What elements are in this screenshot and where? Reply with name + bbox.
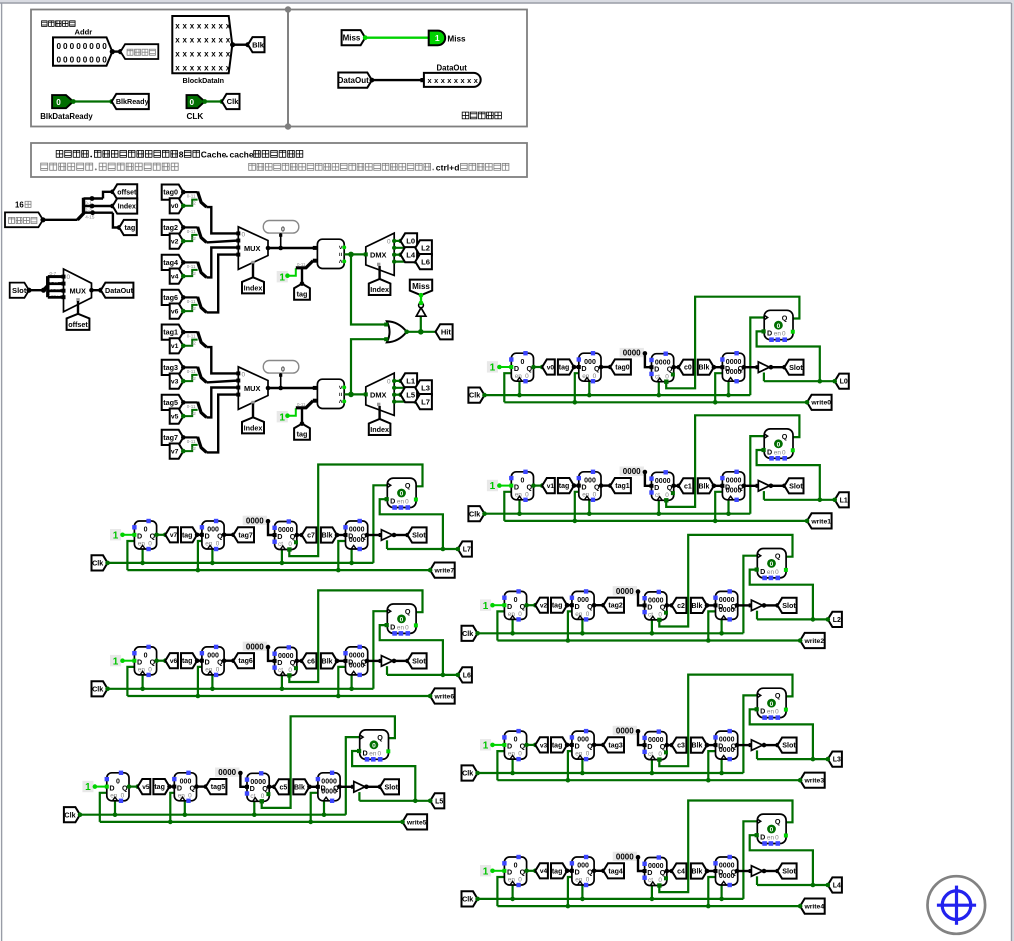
wire: buffer out to tunnel Slot (black bus) <box>762 603 780 608</box>
splitter: address 16-bit to offset/index/tag <box>78 189 122 230</box>
counter C5 (4-bit) <box>245 771 271 803</box>
svg-text:x: x <box>175 35 180 44</box>
demultiplexer DMX (line select) <box>364 373 394 415</box>
flip-flop W7 (written flag) <box>387 478 416 507</box>
tunnel tag (input, row 2) <box>551 598 574 613</box>
svg-text:0: 0 <box>775 835 779 842</box>
svg-text:0: 0 <box>665 492 669 499</box>
constant 0000 (counter preset, row 3) <box>613 726 645 745</box>
svg-text:tag4: tag4 <box>163 258 178 267</box>
wire: row3 write enable bus (dark green) <box>497 751 800 782</box>
label 输出引脚区 <box>462 112 469 119</box>
svg-text:0-11: 0-11 <box>187 194 196 199</box>
svg-text:Clk: Clk <box>64 810 75 819</box>
svg-text:0: 0 <box>658 612 662 619</box>
tunnel Slot (row 2) <box>778 598 797 613</box>
svg-text:tag4: tag4 <box>608 868 623 875</box>
svg-text:D: D <box>718 602 723 611</box>
tunnel Clk (row 2) <box>462 626 480 641</box>
register V7 (valid bit, 1-bit) <box>132 519 156 551</box>
tunnel Index (MUX select) <box>242 277 264 293</box>
svg-text:1: 1 <box>483 866 489 877</box>
svg-text:tag: tag <box>154 784 165 791</box>
input pin BlockDataIn (128-bit) <box>172 16 232 73</box>
svg-text:Slot: Slot <box>385 782 399 791</box>
svg-text:write0: write0 <box>810 400 831 407</box>
tunnel write6 (write strobe output) <box>428 688 455 703</box>
svg-text:tag3: tag3 <box>608 742 623 749</box>
svg-text:0: 0 <box>525 491 529 498</box>
svg-text:D: D <box>137 658 142 667</box>
svg-text:x: x <box>175 21 180 30</box>
multiplexer MUX (4:1 tag select) <box>236 227 270 270</box>
tunnel Slot (row 7) <box>408 527 427 542</box>
tunnel L4 (line select input) <box>826 877 842 892</box>
svg-text:x: x <box>226 21 231 30</box>
tunnel Slot (row 5) <box>380 779 399 794</box>
svg-text:D: D <box>725 364 730 373</box>
wire: TAG2.Q to tunnel tag2 (black bus) <box>592 603 606 608</box>
svg-text:x: x <box>183 35 188 44</box>
svg-text:0: 0 <box>57 42 62 51</box>
svg-text:c6: c6 <box>307 658 315 665</box>
tri-state buffer B7 <box>381 530 392 541</box>
wire: C0.Q to tunnel c0 (black bus) <box>671 365 681 370</box>
svg-text:D: D <box>647 603 652 612</box>
wire: row5 write enable bus (dark green) <box>100 793 403 824</box>
wire: DMX out2 to L5 (dark green) <box>392 393 403 397</box>
tunnel v7 <box>170 444 184 459</box>
svg-text:Q: Q <box>587 602 593 611</box>
svg-text:0000: 0000 <box>616 727 634 736</box>
svg-text:Q: Q <box>587 742 593 751</box>
constant 0000 (counter preset, row 0) <box>620 348 652 367</box>
wire: C4.Q to tunnel c4 (black bus) <box>665 869 675 874</box>
svg-text:0: 0 <box>70 42 75 51</box>
flip-flop W3 (written flag) <box>757 688 786 717</box>
svg-text:x: x <box>183 63 188 72</box>
svg-text:L4: L4 <box>406 250 416 259</box>
tunnel v6 <box>170 304 184 319</box>
splitter: merge tag1(0-11) + v1(12) <box>181 330 207 348</box>
svg-text:x: x <box>197 49 202 58</box>
svg-text:L2: L2 <box>833 617 841 624</box>
tunnel Blk (input, row 6) <box>321 653 348 668</box>
svg-text:BlockDataIn: BlockDataIn <box>183 76 225 85</box>
tunnel L5 (line select input) <box>428 793 444 808</box>
svg-text:12: 12 <box>191 376 197 381</box>
svg-text:0: 0 <box>514 597 518 604</box>
tunnel tag (compare input) <box>294 268 310 299</box>
svg-text:c1: c1 <box>684 483 692 490</box>
tunnel L5 <box>401 387 418 402</box>
svg-text:x: x <box>219 49 224 58</box>
wire: buffer out to tunnel Slot (black bus) <box>762 743 780 748</box>
svg-text:D: D <box>514 482 519 491</box>
tunnel tag (input, row 3) <box>551 737 574 752</box>
wire: row0 write enable bus (dark green) <box>504 373 807 404</box>
tunnel v6 <box>165 653 178 668</box>
tunnel Slot (row 6) <box>408 653 427 668</box>
svg-text:0: 0 <box>56 98 61 107</box>
svg-text:Clk: Clk <box>469 391 480 400</box>
comparator (tag == ?) <box>313 379 346 408</box>
svg-text:Q: Q <box>594 364 600 373</box>
tunnel tag (input, row 4) <box>551 863 574 878</box>
svg-text:D: D <box>507 742 512 751</box>
svg-text:0: 0 <box>190 98 195 107</box>
svg-text:en: en <box>369 750 377 757</box>
svg-text:Blk: Blk <box>252 40 265 49</box>
flip-flop W2 (written flag) <box>757 549 786 578</box>
tunnel tag (compare input) <box>294 408 310 439</box>
wire: BlkDataReady to tunnel BlkReady (dark green) <box>71 99 114 104</box>
svg-text:Q: Q <box>290 658 296 667</box>
svg-text:tag: tag <box>559 483 570 490</box>
svg-text:Miss: Miss <box>447 34 466 43</box>
wire: buffer out to tunnel Slot (black bus) <box>769 365 787 370</box>
svg-text:write2: write2 <box>803 638 824 645</box>
svg-text:Blk: Blk <box>294 784 305 791</box>
svg-text:x: x <box>204 35 209 44</box>
svg-text:Q: Q <box>587 868 593 877</box>
label 16位 <box>15 201 31 210</box>
svg-text:0: 0 <box>188 792 192 799</box>
svg-text:L1: L1 <box>840 497 848 504</box>
svg-text:Slot: Slot <box>789 363 803 372</box>
svg-text:tag6: tag6 <box>163 293 178 302</box>
svg-text:Q: Q <box>520 602 526 611</box>
wire: TAG0.Q to tunnel tag0 (black bus) <box>599 365 613 370</box>
svg-text:0: 0 <box>76 56 81 65</box>
svg-text:0000: 0000 <box>616 852 634 861</box>
svg-text:x: x <box>175 63 180 72</box>
svg-text:0: 0 <box>102 56 107 65</box>
svg-text:0: 0 <box>400 617 404 624</box>
svg-text:Slot: Slot <box>12 286 27 295</box>
svg-text:tag: tag <box>182 532 193 539</box>
tunnel tag7 <box>162 430 184 445</box>
svg-text:DataOut: DataOut <box>338 76 369 85</box>
svg-text:0: 0 <box>148 541 152 548</box>
svg-text:D: D <box>647 868 652 877</box>
svg-text:MUX: MUX <box>70 287 86 296</box>
tunnel tag6 <box>162 290 184 305</box>
splitter: merge tag4(0-11) + v4(12) <box>181 260 207 278</box>
svg-text:x: x <box>204 63 209 72</box>
svg-text:1: 1 <box>113 656 119 667</box>
svg-text:v5: v5 <box>142 784 150 791</box>
tri-state buffer B3 <box>751 740 762 751</box>
svg-text:0: 0 <box>148 667 152 674</box>
svg-text:16-23: 16-23 <box>49 286 61 291</box>
svg-text:D: D <box>205 658 210 667</box>
svg-text:x: x <box>211 21 216 30</box>
wire: hit node up to NOT gate (dark green) <box>420 316 422 332</box>
tunnel v5 <box>138 779 151 794</box>
svg-text:x: x <box>204 49 209 58</box>
svg-text:MUX: MUX <box>244 384 260 393</box>
svg-text:0: 0 <box>387 238 391 245</box>
tunnel write7 (write strobe output) <box>428 563 455 578</box>
svg-text:D: D <box>575 602 580 611</box>
svg-text:0: 0 <box>281 367 285 374</box>
wire: DATA0.Q to buffer (black bus) <box>742 365 760 370</box>
counter C2 (4-bit) <box>642 590 668 622</box>
svg-text:x: x <box>197 35 202 44</box>
svg-text:1: 1 <box>85 782 91 793</box>
svg-text:Index: Index <box>118 204 136 211</box>
wire: MUX select stub <box>252 404 254 418</box>
tunnel tag (input, row 5) <box>153 779 176 794</box>
svg-text:0: 0 <box>387 378 391 385</box>
svg-text:0: 0 <box>658 877 662 884</box>
svg-text:0: 0 <box>521 359 525 366</box>
svg-text:Index: Index <box>370 425 389 434</box>
tunnel c5 <box>274 779 289 794</box>
svg-text:Slot: Slot <box>782 601 796 610</box>
svg-text:Q: Q <box>122 783 128 792</box>
svg-text:0-11: 0-11 <box>187 439 196 444</box>
svg-text:Clk: Clk <box>462 769 473 778</box>
svg-text:Cache: Cache <box>201 150 227 160</box>
svg-text:Clk: Clk <box>462 629 473 638</box>
svg-text:tag2: tag2 <box>163 223 178 232</box>
svg-text:0: 0 <box>405 624 409 631</box>
constant 0000 (counter preset, row 6) <box>243 642 275 661</box>
tunnel Clk (row 1) <box>468 506 486 521</box>
wire: MUX out to comparator A (black bus) <box>268 386 315 391</box>
svg-text:0: 0 <box>777 442 781 449</box>
svg-text:Q: Q <box>262 784 268 793</box>
svg-text:x: x <box>190 63 195 72</box>
wire: Slot to splitter <box>29 288 46 293</box>
tunnel 字节地址 (address source) <box>5 212 46 227</box>
wire + node: comparator '=' out (dark green) <box>344 392 366 398</box>
wire: row6 flip-flop Q to counter load net (dark green) <box>289 590 422 682</box>
svg-text:0: 0 <box>514 863 518 870</box>
svg-text:0: 0 <box>782 331 786 338</box>
svg-text:0: 0 <box>518 751 522 758</box>
svg-text:x: x <box>197 63 202 72</box>
svg-text:x: x <box>204 21 209 30</box>
wire: MUX select stub to offset <box>77 301 79 314</box>
svg-text:D: D <box>277 532 282 541</box>
tunnel tag3 <box>162 360 184 375</box>
svg-text:0: 0 <box>96 42 101 51</box>
tunnel v7 <box>165 527 178 542</box>
row 5 cache line block <box>64 716 444 829</box>
tunnel Blk (input, row 7) <box>321 527 348 542</box>
wire: row6 write enable bus (dark green) <box>127 667 430 698</box>
svg-text:4-15: 4-15 <box>85 214 95 219</box>
svg-text:c2: c2 <box>677 603 685 610</box>
constant 0000 (counter preset, row 1) <box>620 467 652 486</box>
svg-text:0-11: 0-11 <box>187 334 196 339</box>
output pin Miss (value 1) <box>429 31 446 46</box>
input pin area box <box>31 10 288 127</box>
multiplexer MUX (byte select for DataOut) <box>62 269 94 312</box>
tunnel v4 <box>535 863 548 878</box>
svg-text:L5: L5 <box>435 798 443 805</box>
wire: row6 line-select net from L6 to flip-flop D and buffer gate (dark green) <box>380 625 458 677</box>
row 7 cache line block <box>92 465 472 578</box>
wire: DMX out3 to L6 (dark green) <box>392 259 417 263</box>
tunnel v2 <box>535 598 548 613</box>
svg-text:0: 0 <box>514 737 518 744</box>
svg-text:en: en <box>397 624 405 631</box>
wire: DATA2.Q to buffer (black bus) <box>735 603 753 608</box>
svg-text:D: D <box>348 658 353 667</box>
svg-text:8: 8 <box>179 150 184 160</box>
svg-text:tag: tag <box>125 223 136 232</box>
svg-text:0: 0 <box>96 56 101 65</box>
constant 1 (valid compare) <box>277 408 296 423</box>
tunnel tag (input, row 7) <box>181 527 204 542</box>
tunnel Index (DMX select) <box>369 419 391 435</box>
svg-text:Q: Q <box>527 364 533 373</box>
wire: C2.Q to tunnel c2 (black bus) <box>665 603 675 608</box>
svg-text:DataOut: DataOut <box>437 64 468 73</box>
tunnel 字节地址 (byte address) <box>121 44 159 59</box>
wire: row4 write enable bus (dark green) <box>497 877 800 908</box>
register V3 (valid bit, 1-bit) <box>502 729 526 761</box>
svg-text:en: en <box>774 331 782 338</box>
svg-text:x: x <box>175 49 180 58</box>
svg-text:x: x <box>211 35 216 44</box>
svg-text:D: D <box>507 868 512 877</box>
svg-text:write4: write4 <box>803 904 824 911</box>
svg-text:0: 0 <box>770 827 774 834</box>
svg-text:DMX: DMX <box>370 251 386 260</box>
tunnel Blk (input, row 2) <box>691 598 718 613</box>
register V5 (valid bit, 1-bit) <box>105 771 129 803</box>
svg-text:Miss: Miss <box>343 34 361 43</box>
register TAG2 (12-bit tag) <box>570 589 594 621</box>
svg-text:Blk: Blk <box>692 743 703 750</box>
splitter: merge tag6(0-11) + v6(12) <box>181 295 207 313</box>
svg-text:0: 0 <box>57 56 62 65</box>
tunnel Slot (row 0) <box>784 360 803 375</box>
svg-text:Hit: Hit <box>441 328 452 337</box>
svg-text:v3: v3 <box>171 379 179 386</box>
wire + node: OR out to Hit (dark green) <box>404 329 435 335</box>
svg-text:tag: tag <box>552 603 563 610</box>
svg-text:0: 0 <box>121 792 125 799</box>
svg-text:0: 0 <box>775 569 779 576</box>
svg-text:D: D <box>109 783 114 792</box>
svg-text:Clk: Clk <box>462 895 473 904</box>
register TAG1 (12-bit tag) <box>577 470 601 502</box>
svg-text:tag7: tag7 <box>163 433 178 442</box>
counter C7 (4-bit) <box>272 519 298 551</box>
tunnel tag1 <box>610 478 631 493</box>
tunnel tag2 <box>603 598 624 613</box>
svg-text:ctrl+d: ctrl+d <box>436 163 460 173</box>
tunnel v4 <box>170 269 184 284</box>
svg-text:0-1: 0-1 <box>85 200 92 205</box>
svg-text:Q: Q <box>405 607 411 616</box>
svg-text:D: D <box>363 748 368 757</box>
svg-text:0000: 0000 <box>616 587 634 596</box>
wire: DATA7.Q to buffer (black bus) <box>365 533 383 538</box>
svg-text:x: x <box>190 49 195 58</box>
constant 1 (valid-in, row 3) <box>480 739 504 751</box>
svg-text:c0: c0 <box>684 365 692 372</box>
svg-text:Slot: Slot <box>412 531 426 540</box>
svg-text:0-11: 0-11 <box>187 369 196 374</box>
svg-text:Q: Q <box>775 817 781 826</box>
svg-text:D: D <box>581 482 586 491</box>
svg-text:Blk: Blk <box>322 658 333 665</box>
tunnel v0 <box>170 198 184 213</box>
svg-text:1: 1 <box>113 530 119 541</box>
svg-text:0: 0 <box>116 778 120 785</box>
constant 1 (valid-in, row 6) <box>110 655 134 667</box>
svg-text:tag7: tag7 <box>238 532 253 539</box>
multiplexer MUX (4:1 tag select) <box>236 367 270 410</box>
svg-text:L1: L1 <box>406 377 416 386</box>
wire: DATA5.Q to buffer (black bus) <box>337 785 355 790</box>
wire: row1 line-select net from L1 to flip-flop D and buffer gate (dark green) <box>757 450 835 502</box>
wire: comparator1 '=' to OR gate (dark green) <box>351 254 386 324</box>
svg-text:0: 0 <box>70 56 75 65</box>
register DATA2 (32-bit block data) <box>713 589 737 621</box>
svg-text:D: D <box>647 742 652 751</box>
wire: C5.Q to tunnel c5 (black bus) <box>267 785 277 790</box>
svg-text:tag1: tag1 <box>163 328 178 337</box>
svg-text:v7: v7 <box>170 532 178 539</box>
tunnel Slot (row 4) <box>778 863 797 878</box>
svg-text:0-11: 0-11 <box>187 404 196 409</box>
svg-text:c5: c5 <box>280 784 288 791</box>
svg-text:write5: write5 <box>406 819 427 826</box>
register TAG4 (12-bit tag) <box>570 855 594 887</box>
flip-flop W0 (written flag) <box>764 310 793 339</box>
wire: row2 clk bus (dark green) <box>478 556 758 636</box>
svg-text:D: D <box>760 567 765 576</box>
tunnel L3 (line select input) <box>826 752 842 767</box>
wire: address to splitter <box>43 219 78 221</box>
wire + node: V5.Q to tunnel v5 (dark green) <box>127 784 140 789</box>
svg-text:MUX: MUX <box>244 244 260 253</box>
tunnel tag1 <box>162 325 184 340</box>
svg-text:Clk: Clk <box>469 509 480 518</box>
svg-text:offset: offset <box>117 189 137 196</box>
wire: DATA6.Q to buffer (black bus) <box>365 659 383 664</box>
wire: row3 clk bus (dark green) <box>478 695 758 775</box>
svg-text:0: 0 <box>242 232 246 239</box>
svg-text:D: D <box>205 532 210 541</box>
row 1 cache line block <box>468 415 848 528</box>
wire + node: V1.Q to tunnel v1 (dark green) <box>531 483 544 488</box>
svg-text:x: x <box>211 49 216 58</box>
svg-text:L3: L3 <box>421 384 430 393</box>
svg-text:=: = <box>336 253 343 257</box>
svg-text:BlkDataReady: BlkDataReady <box>40 112 93 121</box>
wire: pair2 to MUX in1 <box>207 381 239 383</box>
wire: row7 write enable bus (dark green) <box>127 541 430 572</box>
svg-text:tag: tag <box>297 430 308 439</box>
register TAG5 (12-bit tag) <box>172 771 196 803</box>
wire: C3.Q to tunnel c3 (black bus) <box>665 743 675 748</box>
svg-text:c3: c3 <box>677 743 685 750</box>
tag multiplexer group (tag1..) <box>162 325 432 459</box>
svg-text:L2: L2 <box>421 244 430 253</box>
svg-text:write7: write7 <box>433 568 454 575</box>
svg-text:0: 0 <box>665 373 669 380</box>
splitter: merge tag2(0-11) + v2(12) <box>181 225 207 243</box>
